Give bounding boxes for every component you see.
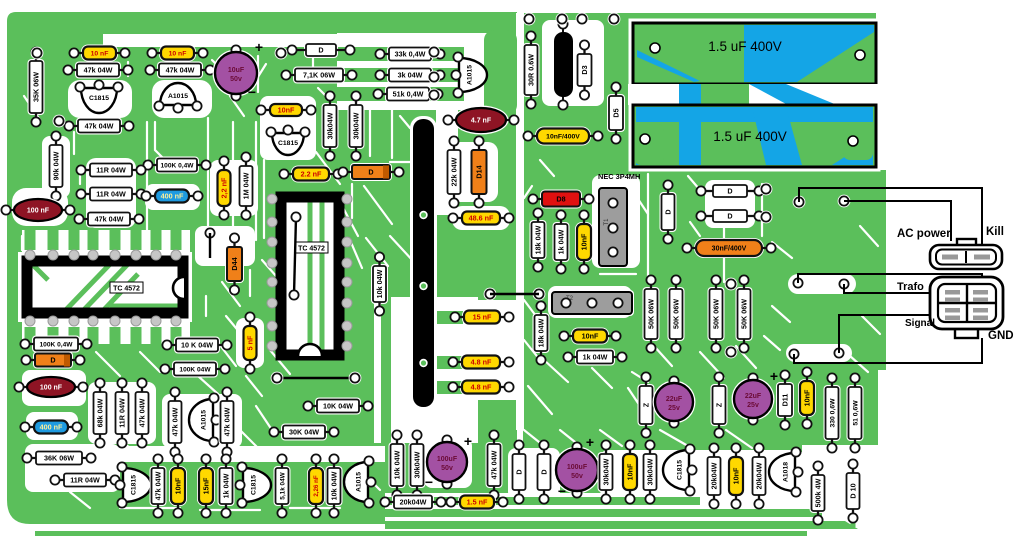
- svg-text:A1015: A1015: [200, 410, 207, 430]
- wire GND: [794, 338, 982, 363]
- svg-text:100K 04W: 100K 04W: [179, 366, 211, 373]
- resistor 30k b: [348, 91, 365, 160]
- transistor Q5 A1015: [189, 393, 221, 446]
- diode D a: [287, 42, 354, 58]
- resistor 7,1K: [281, 67, 356, 84]
- transistor Q6 C1815: [115, 462, 151, 507]
- resistor 47k v d: [486, 430, 503, 499]
- diode D e: [511, 440, 528, 503]
- svg-text:10k 04W: 10k 04W: [375, 269, 384, 298]
- resistor 47k d: [74, 211, 143, 228]
- resistor 30K: [269, 424, 338, 441]
- resistor 47k a: [63, 62, 132, 79]
- capacitor 4.7nF: [443, 106, 518, 135]
- wire Kill: [799, 188, 982, 247]
- resistor 3k: [375, 67, 444, 84]
- transistor Q8 A1015: [344, 456, 376, 507]
- traces to 33k/3k/51k: [336, 30, 517, 445]
- svg-text:Kill: Kill: [986, 226, 1004, 238]
- svg-text:10 nF: 10 nF: [91, 50, 109, 57]
- svg-text:10nF/400V: 10nF/400V: [546, 133, 580, 140]
- svg-text:50K 06W: 50K 06W: [647, 299, 656, 329]
- svg-text:Z: Z: [642, 402, 651, 407]
- resistor 50K a: [643, 275, 660, 352]
- capacitor 100nF a: [1, 197, 74, 224]
- transistor Q1 C1815: [75, 80, 122, 113]
- svg-text:TC 4572: TC 4572: [298, 246, 325, 253]
- resistor 11R v: [114, 378, 131, 447]
- diode D11: [776, 370, 794, 429]
- svg-text:10 K 04W: 10 K 04W: [181, 341, 213, 350]
- resistor 11R c: [50, 472, 119, 489]
- IC U2 TC4572: [276, 192, 344, 360]
- svg-text:90k 04W: 90k 04W: [52, 151, 61, 180]
- wire Signal 2: [839, 315, 934, 353]
- resistor 20k: [380, 494, 445, 511]
- svg-text:D8: D8: [556, 195, 565, 204]
- svg-text:10nF: 10nF: [626, 463, 635, 480]
- svg-text:100 nF: 100 nF: [27, 208, 50, 215]
- svg-text:C1815: C1815: [676, 460, 683, 480]
- bottom bus traces: [385, 493, 712, 531]
- svg-text:330 0,6W: 330 0,6W: [829, 398, 836, 428]
- svg-text:Signal: Signal: [905, 318, 935, 329]
- capacitor 5nF: [242, 312, 259, 373]
- svg-text:10nF: 10nF: [582, 332, 599, 341]
- capacitor 10nF v c: [798, 367, 816, 428]
- svg-text:50v: 50v: [571, 473, 583, 480]
- svg-text:33k 0,4W: 33k 0,4W: [395, 50, 426, 59]
- svg-text:20k04W: 20k04W: [710, 462, 719, 489]
- svg-text:500k 4W: 500k 4W: [814, 478, 823, 507]
- right board clearance pockets: [508, 20, 856, 500]
- svg-text:10nF: 10nF: [580, 233, 589, 250]
- left board copper pour: [7, 12, 517, 524]
- resistor 51k: [373, 86, 442, 103]
- svg-text:−: −: [425, 474, 433, 490]
- svg-text:10k 04W: 10k 04W: [393, 450, 402, 479]
- svg-text:5,1k 04W: 5,1k 04W: [279, 471, 286, 499]
- svg-text:D14: D14: [475, 165, 484, 178]
- svg-text:Trafo: Trafo: [897, 281, 924, 293]
- svg-text:D: D: [318, 46, 323, 55]
- svg-text:30k04W: 30k04W: [352, 112, 361, 139]
- svg-text:47k 04W: 47k 04W: [95, 215, 124, 224]
- svg-text:C1815: C1815: [278, 140, 298, 147]
- transistor Q7 C1815: [235, 462, 271, 507]
- svg-text:50K 06W: 50K 06W: [672, 299, 681, 329]
- connector J1 AC: [930, 239, 1002, 269]
- resistor 47k v a: [134, 378, 151, 447]
- wire Trafo: [798, 274, 982, 283]
- svg-text:D5: D5: [612, 108, 621, 117]
- svg-text:47k 04W: 47k 04W: [85, 122, 114, 131]
- diode black cap: [552, 19, 575, 109]
- transistor Q3 A1015: [451, 52, 487, 97]
- capacitor 10nF/400V: [523, 127, 602, 146]
- diode D orange: [338, 163, 403, 181]
- IC U2 pads: [267, 194, 352, 351]
- svg-text:100uF: 100uF: [567, 464, 588, 471]
- resistor 22k: [446, 136, 463, 207]
- traces between capacitor boxes: [628, 84, 886, 105]
- capacitor 100nF b: [14, 375, 87, 400]
- svg-text:18k 04W: 18k 04W: [537, 318, 546, 347]
- svg-text:20k04W: 20k04W: [755, 462, 764, 489]
- clearance around capacitor boxes: [630, 20, 879, 87]
- svg-text:11R 04W: 11R 04W: [96, 190, 126, 199]
- svg-text:30R 0.6W: 30R 0.6W: [527, 54, 536, 86]
- svg-text:22uF: 22uF: [666, 396, 683, 403]
- svg-text:10nF: 10nF: [803, 389, 812, 406]
- svg-text:+: +: [586, 434, 594, 450]
- svg-text:A1018: A1018: [782, 462, 789, 482]
- via pads: [31, 47, 851, 361]
- svg-text:50v: 50v: [230, 76, 242, 83]
- svg-text:22uF: 22uF: [745, 393, 762, 400]
- svg-text:3k 04W: 3k 04W: [398, 71, 423, 80]
- svg-text:+: +: [255, 39, 263, 55]
- svg-text:20k04W: 20k04W: [400, 498, 427, 507]
- resistor 20k v b: [751, 443, 768, 508]
- resistor 500k: [810, 461, 827, 524]
- board gap: [516, 13, 524, 430]
- svg-text:2,2 nF: 2,2 nF: [220, 177, 229, 198]
- svg-text:50v: 50v: [441, 465, 453, 472]
- svg-text:1.5 uF 400V: 1.5 uF 400V: [713, 129, 787, 144]
- resistor 47k c: [64, 118, 133, 135]
- capacitor 22uF a: [653, 376, 696, 427]
- svg-text:10K 04W: 10K 04W: [323, 402, 353, 411]
- pad: [608, 13, 621, 26]
- resistor 51: [847, 373, 864, 452]
- resistor 330: [824, 373, 841, 452]
- right board copper pour: [523, 13, 886, 531]
- svg-text:11R 04W: 11R 04W: [118, 398, 127, 428]
- resistor 10K b: [162, 337, 231, 354]
- diode D orange b: [21, 352, 84, 369]
- svg-text:30k04W: 30k04W: [602, 458, 611, 485]
- svg-text:47k 04W: 47k 04W: [84, 66, 113, 75]
- capacitor 15nF: [450, 309, 513, 326]
- resistor 1M: [238, 152, 255, 219]
- svg-text:15 nF: 15 nF: [473, 313, 492, 322]
- svg-text:30k04W: 30k04W: [413, 451, 422, 478]
- svg-text:A1015: A1015: [168, 93, 188, 100]
- svg-text:30K 04W: 30K 04W: [289, 428, 319, 437]
- svg-text:47k 04W: 47k 04W: [223, 407, 232, 436]
- capacitor 4.8nF a: [448, 354, 513, 371]
- svg-text:30nF/400V: 30nF/400V: [712, 246, 747, 253]
- svg-text:10uF: 10uF: [228, 67, 245, 74]
- svg-text:AC power: AC power: [897, 228, 951, 240]
- capacitor 10nF v b: [575, 210, 593, 273]
- svg-text:5 nF: 5 nF: [246, 335, 255, 350]
- svg-text:1.5 uF 400V: 1.5 uF 400V: [708, 39, 782, 54]
- thyristor U4 T2: [550, 290, 634, 316]
- svg-text:50K 06W: 50K 06W: [740, 299, 749, 329]
- resistor 50K c: [708, 275, 725, 352]
- resistor 10k v b: [326, 454, 343, 517]
- svg-text:100uF: 100uF: [437, 456, 458, 463]
- etched clearance channels: [22, 56, 880, 510]
- svg-text:10nF: 10nF: [174, 477, 183, 494]
- resistor 47k b: [145, 62, 214, 79]
- resistor 10K c: [303, 398, 372, 415]
- transistor Q4 C1815: [266, 125, 309, 155]
- resistor 18k b: [533, 301, 550, 364]
- resistor 68k: [92, 378, 109, 447]
- resistor 5,1k: [274, 454, 291, 517]
- pad: [523, 13, 536, 26]
- capacitor 10nF v d: [621, 440, 639, 503]
- board wire: [490, 293, 539, 296]
- capacitor 100uF b: [554, 434, 601, 499]
- svg-text:D: D: [727, 187, 732, 196]
- resistor 30R: [523, 31, 540, 108]
- resistor 30k a: [322, 91, 339, 160]
- svg-text:10nF: 10nF: [732, 467, 741, 484]
- svg-text:7,1K 06W: 7,1K 06W: [303, 71, 335, 80]
- resistor 50K b: [668, 275, 685, 352]
- svg-text:−: −: [558, 483, 566, 499]
- resistor 100K b: [20, 336, 91, 353]
- svg-text:11R 04W: 11R 04W: [96, 166, 126, 175]
- svg-text:A1015: A1015: [466, 65, 473, 85]
- svg-text:36K 06W: 36K 06W: [44, 454, 74, 463]
- svg-text:1k 04W: 1k 04W: [222, 473, 231, 498]
- svg-text:18k 04W: 18k 04W: [534, 225, 543, 254]
- capacitor C big 1 1.5uF400V: [633, 23, 876, 84]
- resistor 36K: [22, 450, 95, 467]
- svg-text:30k04W: 30k04W: [326, 112, 335, 139]
- resistor 30k v c: [642, 440, 659, 503]
- capacitor 10nF v e: [727, 443, 745, 508]
- resistor 30k v: [409, 430, 426, 499]
- wire under U2: [277, 377, 355, 379]
- svg-text:1k 04W: 1k 04W: [557, 229, 566, 254]
- svg-text:D44: D44: [230, 257, 239, 270]
- pad: [556, 13, 569, 26]
- capacitor 10nF v a: [169, 454, 187, 517]
- svg-text:48.6 nF: 48.6 nF: [469, 214, 494, 223]
- resistor 1k v: [218, 454, 235, 517]
- resistor 35K: [28, 47, 45, 126]
- capacitor 2.2nF h: [279, 166, 342, 183]
- capacitor 10nF a: [69, 45, 129, 62]
- diode D c: [696, 183, 763, 199]
- svg-text:C1815: C1815: [130, 475, 137, 495]
- board edge trace: [35, 531, 807, 536]
- resistor 10k top: [371, 252, 388, 315]
- wire to U1: [209, 233, 211, 258]
- capacitor 10nF b: [147, 45, 207, 62]
- svg-text:D: D: [50, 356, 55, 365]
- resistor 11R a: [76, 162, 145, 179]
- resistor 90k: [48, 131, 65, 200]
- wire pad: [271, 372, 284, 385]
- diode D14: [470, 136, 489, 207]
- svg-text:47k 04W: 47k 04W: [166, 66, 195, 75]
- svg-text:NEC 3P4MH: NEC 3P4MH: [598, 172, 640, 181]
- IC U1 TC4572: [18, 252, 192, 322]
- resistor 33k: [375, 46, 444, 63]
- capacitor 15nF v: [197, 454, 215, 517]
- svg-text:35K 06W: 35K 06W: [32, 72, 41, 102]
- svg-text:15nF: 15nF: [202, 477, 211, 494]
- resistor 1k a: [553, 210, 570, 273]
- svg-text:C1815: C1815: [250, 475, 257, 495]
- capacitor 10uF: [213, 39, 264, 101]
- wire inside U2: [289, 212, 300, 299]
- heatsink bar Q-row: [410, 116, 437, 410]
- svg-text:4.7 nF: 4.7 nF: [471, 118, 492, 125]
- transistor Q9 C1815: [663, 444, 697, 495]
- svg-text:D: D: [664, 209, 673, 214]
- diode Z a: [638, 372, 655, 437]
- svg-text:D: D: [515, 469, 524, 474]
- svg-text:400 nF: 400 nF: [161, 192, 184, 201]
- resistor 30k v b: [598, 440, 615, 503]
- trace clearance regions: [12, 33, 517, 513]
- svg-text:1.5 nF: 1.5 nF: [467, 498, 488, 507]
- svg-text:47k 04W: 47k 04W: [154, 471, 163, 500]
- resistor 18k a: [530, 208, 547, 271]
- svg-text:100K 0,4W: 100K 0,4W: [40, 341, 74, 348]
- svg-text:68k 04W: 68k 04W: [96, 398, 105, 427]
- wire pad: [349, 372, 362, 385]
- diode D10: [845, 459, 862, 522]
- resistor 11R b: [76, 186, 145, 203]
- wire Signal 1: [844, 284, 934, 293]
- resistor 20k v a: [706, 443, 723, 508]
- svg-text:A1015: A1015: [355, 472, 362, 492]
- svg-text:1k 04W: 1k 04W: [583, 353, 608, 362]
- svg-text:D 10: D 10: [849, 483, 858, 498]
- resistor 47k v b: [167, 387, 184, 456]
- node pad: [204, 227, 217, 240]
- capacitor 48.6nF: [448, 210, 513, 227]
- capacitor 2,26nF: [307, 454, 325, 517]
- resistor 50K d: [736, 275, 753, 352]
- diode D b: [660, 180, 677, 243]
- capacitor 10nF c: [256, 102, 315, 118]
- svg-text:47k 04W: 47k 04W: [138, 398, 147, 427]
- svg-text:TC 4572: TC 4572: [113, 286, 140, 293]
- diode D f: [536, 440, 553, 503]
- capacitor 30nF/400V: [682, 238, 775, 258]
- capacitor 100uF a: [425, 433, 473, 490]
- svg-text:D: D: [727, 212, 732, 221]
- svg-text:22k 04W: 22k 04W: [450, 157, 459, 186]
- svg-text:C1815: C1815: [89, 95, 109, 102]
- capacitor 10nF d: [559, 328, 620, 345]
- traces to 500k / D10: [700, 446, 853, 527]
- svg-text:50K 06W: 50K 06W: [712, 299, 721, 329]
- resistor 47k v c: [219, 387, 236, 456]
- capacitor 400nF b: [20, 419, 81, 436]
- svg-text:100 nF: 100 nF: [40, 385, 63, 392]
- svg-text:400 nF: 400 nF: [40, 423, 63, 432]
- svg-text:47k 04W: 47k 04W: [490, 450, 499, 479]
- svg-text:100K 0,4W: 100K 0,4W: [161, 162, 195, 169]
- svg-text:1M 04W: 1M 04W: [242, 172, 251, 199]
- capacitor 400nF a: [141, 188, 202, 205]
- diode Z b: [711, 372, 728, 437]
- svg-text:2.2 nF: 2.2 nF: [301, 170, 322, 179]
- svg-text:D11: D11: [781, 394, 790, 407]
- svg-text:30k04W: 30k04W: [646, 458, 655, 485]
- resistor 1k b: [563, 349, 626, 366]
- svg-text:51k 0,4W: 51k 0,4W: [393, 90, 424, 99]
- svg-text:+: +: [770, 368, 778, 384]
- svg-text:D: D: [368, 168, 373, 177]
- capacitor 4.8nF b: [448, 379, 513, 396]
- svg-text:Z: Z: [715, 402, 724, 407]
- svg-text:10 nF: 10 nF: [169, 50, 187, 57]
- svg-text:GND: GND: [988, 330, 1014, 342]
- svg-text:−: −: [248, 84, 256, 100]
- capacitor 2.2nF v: [216, 156, 233, 219]
- svg-text:+: +: [464, 433, 472, 449]
- resistor 100K a: [143, 157, 210, 174]
- resistor 100K c: [160, 361, 229, 378]
- diode D8: [528, 190, 593, 209]
- diode D5: [607, 82, 625, 143]
- diode D44: [225, 233, 244, 294]
- resistor 47k v e: [150, 454, 167, 517]
- svg-text:11R 04W: 11R 04W: [70, 476, 100, 485]
- wire AC power: [844, 201, 951, 241]
- svg-text:10k 04W: 10k 04W: [330, 471, 339, 500]
- svg-text:25v: 25v: [668, 405, 680, 412]
- connector J2 Trafo: [930, 277, 1003, 338]
- svg-text:10nF: 10nF: [278, 106, 295, 115]
- pin traces U1: [25, 228, 182, 347]
- capacitor 1.5nF: [446, 494, 507, 511]
- diode D3: [576, 40, 594, 99]
- svg-text:D3: D3: [580, 65, 589, 74]
- capacitor 22uF b: [732, 368, 779, 425]
- pad: [576, 13, 589, 26]
- svg-text:25v: 25v: [747, 402, 759, 409]
- svg-text:2,26 nF: 2,26 nF: [313, 475, 320, 497]
- resistor 10k v: [389, 430, 406, 499]
- svg-text:51 0,6W: 51 0,6W: [852, 400, 859, 426]
- svg-text:4.8 nF: 4.8 nF: [471, 383, 492, 392]
- capacitor C big 2 1.5uF400V: [633, 105, 876, 167]
- transistor Q2 A1015: [154, 83, 201, 113]
- svg-text:47k 04W: 47k 04W: [171, 407, 180, 436]
- diode D d: [696, 208, 763, 224]
- svg-text:4.8 nF: 4.8 nF: [471, 358, 492, 367]
- transistor Q10 A1018: [769, 447, 803, 496]
- svg-text:D: D: [540, 469, 549, 474]
